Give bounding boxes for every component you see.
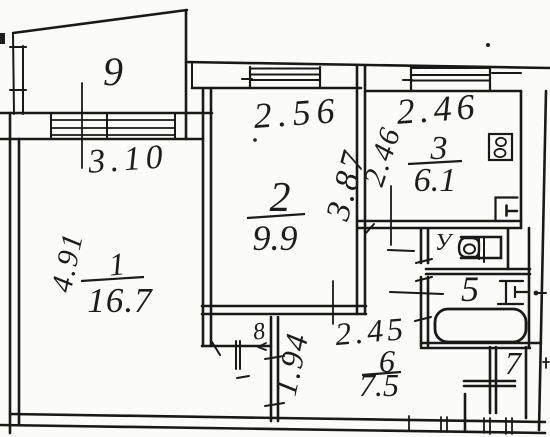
room7 right wall	[525, 347, 528, 418]
toilet fixture box	[461, 237, 501, 258]
bathtub	[435, 309, 526, 342]
toilet right wall	[507, 229, 510, 269]
balcony 9 right edge	[185, 10, 188, 139]
bottom wall second line	[0, 425, 545, 433]
door D1 tick	[212, 342, 220, 355]
tick on wall 1/6 lower	[265, 403, 284, 406]
scan dot room2	[253, 138, 257, 142]
window W1 right cap	[174, 113, 176, 139]
stove burner 2	[495, 149, 506, 157]
right inner wall kitchen	[520, 91, 523, 228]
room 2 fraction line	[247, 214, 305, 218]
room1 top wall outer line	[0, 112, 212, 115]
sanitary wall tick 2	[416, 277, 432, 281]
scan dot top right	[486, 43, 490, 47]
window W1 mid divider	[106, 114, 108, 139]
toilet bowl circle	[464, 244, 475, 253]
right inner wall lower	[528, 228, 531, 347]
svg-text:9.9: 9.9	[253, 218, 298, 258]
room2 bottom wall	[202, 306, 366, 314]
wall between room2 and room3	[357, 66, 365, 314]
left edge blob	[0, 33, 5, 44]
room2 left wall line b	[210, 88, 213, 346]
toilet divider lines	[479, 237, 484, 262]
svg-text:2.46: 2.46	[395, 86, 481, 132]
top exterior wall outer line	[186, 62, 550, 68]
window W3 left dash	[403, 79, 412, 81]
window W2 left dash	[242, 78, 252, 80]
right edge tick	[543, 358, 549, 368]
window W3 sill lines	[411, 68, 490, 81]
svg-text:7: 7	[505, 345, 523, 381]
door D1 lintel	[202, 345, 271, 348]
room7 door threshold	[464, 381, 515, 386]
room3 top wall inner line	[366, 90, 521, 93]
svg-text:У: У	[435, 230, 454, 256]
bath5 door lintel	[390, 292, 443, 294]
balcony rail tie top	[10, 46, 26, 48]
kitchen door tick	[366, 224, 374, 233]
room2 top wall inner line	[192, 87, 361, 90]
balcony 9 left rail post a	[13, 33, 14, 114]
room2 left wall line a	[202, 90, 205, 346]
left outer wall	[9, 113, 12, 433]
door D1 arrow	[258, 343, 266, 350]
svg-text:6.1: 6.1	[414, 162, 457, 199]
svg-text:3.10: 3.10	[86, 138, 169, 181]
tick on wall 1/6 upper	[265, 356, 284, 359]
toilet door lintel	[388, 250, 414, 251]
dimension tick 3.10	[81, 83, 83, 168]
sanitary wall tick 3	[415, 317, 431, 321]
room 3 fraction line	[408, 161, 462, 164]
window W1 sill lines	[51, 120, 175, 135]
svg-text:5: 5	[461, 269, 479, 309]
toilet bowl	[459, 238, 479, 257]
wall between room1 and hall6	[271, 317, 278, 421]
room 6 fraction line	[362, 372, 401, 375]
svg-text:16.7: 16.7	[87, 281, 153, 320]
stove box	[489, 134, 512, 160]
svg-text:2.45: 2.45	[334, 310, 409, 352]
left inner wall	[18, 139, 21, 424]
top wall second-line segments	[492, 72, 521, 74]
wall dot right	[534, 291, 539, 296]
wall between toilet and bath5	[426, 269, 530, 274]
window W1 left cap	[50, 113, 52, 139]
svg-text:2: 2	[270, 175, 291, 221]
dimension tick 2.45	[332, 281, 334, 324]
bottom wall outer lines	[10, 414, 545, 422]
door D1 dash	[237, 376, 249, 378]
svg-text:9: 9	[103, 49, 123, 94]
door D1 leaf posts	[236, 341, 240, 369]
svg-text:1: 1	[107, 245, 126, 282]
room1 top wall inner line	[0, 138, 203, 141]
sanitary block left wall	[421, 229, 428, 346]
dimension tick 2.46 lower	[390, 186, 392, 245]
window W2 sill lines	[250, 69, 320, 81]
bottom wall hatch ticks	[409, 416, 512, 434]
bath5 door mark	[515, 287, 527, 297]
window W3 caps	[411, 67, 490, 90]
vent box mark	[507, 206, 518, 216]
balcony 9 left rail post b	[22, 46, 24, 114]
svg-text:7.5: 7.5	[359, 367, 399, 403]
wall dot and tick right	[538, 292, 546, 294]
balcony 9 top edge	[13, 10, 187, 33]
stove burner 1	[496, 138, 506, 146]
svg-text:2.56: 2.56	[252, 90, 342, 136]
kitchen bottom wall	[358, 221, 521, 228]
hall vertical stub	[464, 394, 467, 430]
balcony rail tie bottom	[10, 89, 26, 91]
room 1 fraction line	[81, 277, 144, 281]
bath bottom wall	[421, 343, 541, 348]
right outer wall	[539, 91, 546, 430]
top wall left connector	[191, 63, 193, 88]
room7 left wall	[490, 347, 496, 413]
sanitary wall tick 1	[416, 259, 432, 263]
window W2 caps	[250, 67, 320, 88]
vent box	[496, 198, 518, 222]
bath5 door box	[498, 281, 523, 304]
